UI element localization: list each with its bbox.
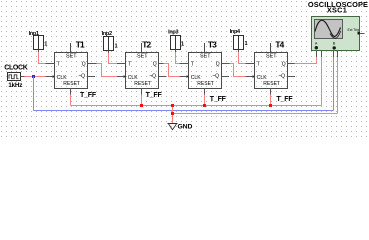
svg-text:SET: SET	[66, 53, 77, 59]
T4 pin lead	[246, 63, 255, 65]
scope terminal B	[333, 46, 336, 49]
svg-text:~Q: ~Q	[149, 73, 156, 79]
ground rail riser to scope A-	[321, 57, 323, 106]
svg-text:T: T	[191, 61, 194, 67]
scope pin lead B+	[333, 51, 335, 58]
wire Inp2 to T2	[109, 53, 118, 64]
Q3 pin lead	[222, 63, 230, 65]
svg-text:1: 1	[44, 42, 47, 48]
junction clock node	[32, 75, 35, 78]
svg-text:T_FF: T_FF	[277, 96, 294, 103]
RESET2 pin lead	[141, 89, 143, 95]
wire Q2 to CLK3	[164, 64, 180, 77]
T2 pin lead	[117, 63, 126, 65]
junction RESET2 on ground rail	[140, 104, 143, 107]
CLK1 pin lead	[46, 76, 55, 78]
svg-text:Q: Q	[282, 62, 286, 68]
~Q2 stub	[159, 76, 167, 78]
clock pin lead	[21, 76, 25, 78]
junction ground drop at rail 2	[171, 112, 174, 115]
svg-text:CLK: CLK	[128, 75, 138, 81]
svg-text:T: T	[57, 61, 60, 67]
RESET1 pin lead	[70, 89, 72, 95]
pin labels flip-flop T4: SET T CLK RESET Q ~Q	[257, 53, 286, 87]
CLK4 pin lead	[246, 76, 255, 78]
svg-text:Q: Q	[153, 62, 157, 68]
CLK2 pin lead	[117, 76, 126, 78]
svg-text:CLK: CLK	[257, 75, 267, 81]
wire Inp4 to T4	[239, 52, 246, 64]
svg-text:Inp2: Inp2	[102, 31, 112, 37]
T1 pin lead	[46, 63, 55, 65]
wire RESET4 to ground rail	[270, 95, 272, 106]
svg-text:CLOCK: CLOCK	[4, 64, 27, 71]
CLK3 pin lead	[180, 76, 189, 78]
svg-text:T2: T2	[142, 40, 151, 50]
svg-text:1kHz: 1kHz	[8, 82, 22, 89]
svg-text:~Q: ~Q	[212, 73, 219, 79]
flip-flop T4 box	[253, 43, 288, 89]
probe Inp1 pin lead	[38, 50, 40, 53]
svg-text:SET: SET	[137, 53, 148, 59]
svg-text:~Q: ~Q	[278, 73, 285, 79]
svg-text:RESET: RESET	[197, 81, 214, 87]
probe Inp4 pin lead	[238, 50, 240, 53]
svg-text:B: B	[333, 42, 336, 46]
svg-text:Q: Q	[82, 62, 86, 68]
RESET4 pin lead	[270, 89, 272, 95]
~Q3 stub	[222, 76, 230, 78]
T3 pin lead	[180, 63, 189, 65]
probe Inp1	[34, 36, 44, 50]
scope pin lead B-	[337, 51, 339, 58]
junction ground drop at rail 1	[171, 104, 174, 107]
wire clock net down	[33, 77, 35, 111]
wire ground rail 2 riser to scope B-	[337, 57, 339, 114]
svg-text:SET: SET	[266, 53, 277, 59]
scope pin lead A+	[316, 51, 318, 58]
oscilloscope XSC1	[312, 17, 365, 51]
wire Q4 to scope channel A+	[295, 57, 317, 64]
wire Q3 to CLK4	[230, 64, 246, 77]
wire RESET3 to ground rail	[204, 95, 206, 106]
svg-text:XSC1: XSC1	[327, 6, 347, 15]
flip-flop T2 box	[124, 43, 159, 89]
~Q1 stub	[88, 76, 96, 78]
svg-text:T_FF: T_FF	[80, 92, 97, 99]
svg-text:T: T	[128, 61, 131, 67]
probe Inp4	[234, 36, 244, 50]
svg-text:1: 1	[181, 42, 184, 48]
Q4 pin lead	[288, 63, 295, 65]
wire RESET2 to ground rail	[141, 95, 143, 106]
svg-text:Inp4: Inp4	[230, 29, 241, 35]
scope ext trig terminal	[358, 32, 361, 35]
wire RESET1 to ground rail	[70, 95, 72, 106]
flip-flop T3 box	[187, 43, 222, 89]
svg-text:CLK: CLK	[191, 75, 201, 81]
wire Q1 to CLK2	[97, 64, 118, 77]
svg-text:~Q: ~Q	[78, 73, 85, 79]
wire clock output to CLK1	[25, 76, 46, 78]
svg-text:RESET: RESET	[263, 81, 280, 87]
svg-text:T: T	[257, 61, 260, 67]
svg-text:Ext Trig: Ext Trig	[348, 28, 360, 32]
probe Inp3	[171, 36, 181, 50]
pin labels flip-flop T1: SET T CLK RESET Q ~Q	[57, 53, 86, 87]
svg-text:RESET: RESET	[134, 81, 151, 87]
clock source CLOCK 1kHz	[8, 73, 21, 81]
ground	[168, 124, 178, 130]
svg-text:T_FF: T_FF	[210, 96, 227, 103]
wire Inp1 to T1	[39, 52, 46, 64]
svg-text:Inp3: Inp3	[168, 29, 178, 35]
svg-text:A: A	[315, 42, 318, 46]
pin labels flip-flop T3: SET T CLK RESET Q ~Q	[191, 53, 220, 87]
flip-flop T1 box	[53, 43, 88, 89]
ground rail wire	[71, 105, 322, 107]
junction RESET3 on ground rail	[203, 104, 206, 107]
svg-text:1: 1	[115, 44, 118, 50]
svg-text:RESET: RESET	[63, 81, 80, 87]
svg-text:1: 1	[245, 41, 248, 47]
wire ground drop to GND symbol	[172, 106, 174, 124]
probe Inp2	[104, 37, 114, 51]
svg-text:Inp1: Inp1	[29, 31, 39, 37]
pin labels flip-flop T2: SET T CLK RESET Q ~Q	[128, 53, 157, 87]
scope waveform	[315, 20, 341, 36]
Q1 pin lead	[88, 63, 97, 65]
probe Inp3 pin lead	[175, 50, 177, 53]
svg-text:CLK: CLK	[57, 75, 67, 81]
svg-text:SET: SET	[200, 53, 211, 59]
svg-text:T4: T4	[275, 40, 284, 50]
junction RESET4 on ground rail	[269, 104, 272, 107]
wire clock net bottom rail	[34, 110, 334, 112]
scope terminal A	[315, 46, 318, 49]
svg-text:T_FF: T_FF	[146, 92, 163, 99]
svg-text:Q: Q	[216, 62, 220, 68]
probe Inp2 pin lead	[108, 51, 110, 54]
wire ground rail 2 to scope B-	[173, 113, 338, 115]
~Q4 stub	[288, 76, 296, 78]
RESET3 pin lead	[204, 89, 206, 95]
Q2 pin lead	[159, 63, 164, 65]
wire clock net riser to scope B+	[333, 57, 335, 111]
svg-text:GND: GND	[178, 124, 193, 131]
svg-text:T3: T3	[208, 40, 217, 50]
scope pin lead A-	[321, 51, 323, 58]
wire Inp3 to T3	[176, 52, 180, 64]
svg-text:T1: T1	[76, 40, 85, 50]
